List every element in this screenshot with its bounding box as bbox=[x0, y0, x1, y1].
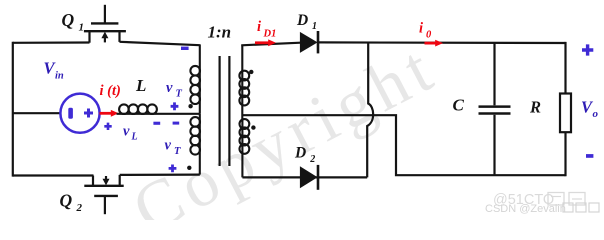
capacitor C bbox=[479, 43, 511, 175]
svg-text:L: L bbox=[135, 76, 146, 95]
transformer primary top winding bbox=[190, 44, 200, 113]
resistor R bbox=[560, 94, 571, 133]
polarity dot primary bottom bbox=[187, 166, 191, 170]
wire secondary top to D1 bbox=[241, 43, 300, 46]
svg-text:Q: Q bbox=[60, 191, 73, 211]
label vT bottom plus bbox=[169, 165, 177, 173]
transformer core bbox=[220, 56, 230, 166]
svg-text:v: v bbox=[166, 80, 173, 96]
label vT bottom bbox=[165, 138, 182, 158]
svg-text:T: T bbox=[174, 146, 181, 157]
svg-text:L: L bbox=[131, 132, 138, 143]
svg-text:i: i bbox=[257, 19, 261, 35]
label output minus bbox=[586, 154, 593, 158]
transistor Q1 bbox=[84, 5, 126, 43]
label vT top bbox=[166, 80, 183, 100]
label vL plus bbox=[104, 123, 111, 130]
svg-text:1: 1 bbox=[312, 21, 317, 32]
svg-text:i (t): i (t) bbox=[100, 83, 121, 99]
svg-text:CSDN @Zevalin: CSDN @Zevalin bbox=[485, 203, 566, 215]
voltage source Vin bbox=[60, 94, 99, 133]
polarity dot secondary top bbox=[249, 70, 253, 74]
label vT top plus bbox=[171, 102, 179, 110]
inductor L bbox=[117, 104, 200, 114]
label iD1 bbox=[257, 19, 276, 40]
svg-text:1:n: 1:n bbox=[208, 23, 232, 42]
label io bbox=[419, 21, 432, 41]
wire top rail left bbox=[13, 41, 90, 43]
label Q1 bbox=[62, 10, 85, 34]
transformer primary bottom winding bbox=[190, 114, 200, 175]
svg-text:v: v bbox=[165, 138, 172, 154]
label vT top minus bbox=[181, 47, 189, 50]
wire bottom rail left bbox=[13, 174, 94, 176]
wire Q1 to transformer bbox=[120, 42, 200, 45]
svg-text:Q: Q bbox=[62, 10, 75, 30]
wire output right vertical bbox=[564, 42, 566, 176]
svg-text:1: 1 bbox=[79, 22, 85, 34]
wire left vertical bbox=[12, 42, 14, 177]
transformer secondary bottom winding bbox=[240, 119, 250, 177]
wire Q2 to transformer bbox=[120, 174, 200, 176]
wire cathode join vertical with hop bbox=[367, 43, 373, 177]
svg-text:D: D bbox=[294, 144, 306, 161]
svg-text:in: in bbox=[55, 71, 64, 82]
wire secondary return bbox=[242, 115, 565, 175]
label Vo bbox=[581, 98, 599, 121]
label output plus bbox=[582, 44, 593, 55]
diode D2 bbox=[300, 165, 318, 190]
wire D1 to output bbox=[318, 41, 566, 44]
svg-text:i: i bbox=[419, 21, 423, 37]
svg-text:D: D bbox=[296, 12, 308, 29]
label vT bottom minus bbox=[173, 122, 180, 125]
polarity dot secondary bottom bbox=[251, 125, 255, 129]
label D1 bbox=[296, 12, 317, 32]
transformer secondary top winding bbox=[239, 45, 249, 119]
svg-text:C: C bbox=[453, 96, 465, 115]
svg-text:v: v bbox=[123, 124, 130, 140]
svg-text:T: T bbox=[176, 89, 183, 100]
svg-text:R: R bbox=[529, 98, 541, 117]
label vL bbox=[123, 124, 138, 143]
diode D1 bbox=[300, 31, 318, 53]
label Q2 bbox=[60, 191, 83, 215]
polarity dot primary top bbox=[188, 104, 192, 108]
svg-text:o: o bbox=[593, 108, 599, 120]
svg-text:0: 0 bbox=[426, 30, 432, 41]
svg-text:2: 2 bbox=[309, 154, 315, 165]
label vL minus bbox=[153, 122, 160, 125]
current arrow i(t) bbox=[100, 110, 119, 117]
wire D2 rail bbox=[242, 176, 367, 178]
label Vin bbox=[44, 59, 64, 82]
transistor Q2 bbox=[84, 175, 123, 214]
current arrow iD1 bbox=[255, 39, 276, 46]
wire source input bbox=[13, 112, 61, 114]
label D2 bbox=[294, 144, 315, 165]
svg-text:2: 2 bbox=[76, 202, 83, 214]
current arrow io bbox=[425, 40, 444, 47]
svg-text:D1: D1 bbox=[263, 29, 277, 40]
